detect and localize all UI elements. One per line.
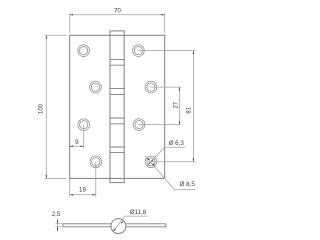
svg-text:27: 27 — [174, 101, 180, 108]
arrow 2,5 down — [57, 221, 59, 224]
side view knuckle circle — [111, 219, 126, 234]
screw hole L2 — [90, 81, 102, 93]
arrow 11,8 NE — [121, 221, 124, 224]
svg-text:Ø 6,3: Ø 6,3 — [169, 140, 185, 147]
dimension 70 line — [70, 14, 165, 16]
dimension 81 line — [192, 51, 194, 162]
arrow 18 right — [93, 194, 96, 196]
dimension 27 extension lines from holes R2 R3 — [139, 87, 181, 125]
arrow 70 right — [161, 14, 164, 16]
screw hole R3 — [133, 119, 145, 131]
dimension 18 line — [70, 194, 96, 196]
arrow 81 bottom — [193, 159, 195, 162]
knuckle joint band 4 — [110, 147, 124, 153]
leader diameter 6,3 — [147, 147, 186, 166]
screw hole R4 — [145, 156, 157, 168]
svg-text:70: 70 — [114, 8, 121, 15]
dimension 2,5 line — [57, 219, 59, 232]
arrow 100 bottom — [46, 175, 48, 178]
dimension 100 line — [45, 35, 47, 178]
arrow 81 top — [193, 51, 195, 54]
arrow 8,5 SE — [152, 163, 155, 166]
arrow 27 top — [179, 87, 181, 90]
screw hole L4 — [90, 156, 102, 168]
hinge leaf outline — [70, 35, 165, 178]
screw hole R2 — [145, 81, 157, 93]
dimension 81 extension lines from holes R1 R4 — [138, 51, 195, 162]
dimension 9 line — [70, 145, 84, 147]
hinge barrel — [110, 31, 124, 183]
arrow 9 right — [80, 146, 83, 148]
svg-text:2,5: 2,5 — [52, 211, 61, 218]
dimension 18 extension lines — [70, 162, 96, 198]
arrow 8,5 NW — [147, 158, 150, 161]
arrow 27 bottom — [179, 121, 181, 124]
knuckle joint band 3 — [110, 118, 124, 124]
svg-text:18: 18 — [79, 187, 86, 194]
screw hole R1 — [133, 45, 145, 57]
dimension 2,5 extension ticks — [55, 224, 63, 227]
knuckle joint band 2 — [110, 89, 124, 95]
dimension 9 extension line from hole L3 — [83, 125, 85, 149]
knuckle joint band 1 — [110, 59, 124, 65]
svg-text:9: 9 — [75, 139, 79, 146]
arrow 6,3 NE — [151, 159, 154, 162]
arrow 6,3 SW — [148, 162, 151, 165]
arrow 70 left — [70, 14, 73, 16]
arrow 100 top — [46, 35, 48, 38]
dimension 70 extension lines — [70, 13, 165, 33]
arrow 2,5 up — [57, 227, 59, 230]
svg-text:81: 81 — [187, 106, 193, 113]
svg-text:100: 100 — [39, 103, 45, 114]
dimension 100 extension lines — [45, 35, 67, 178]
screw hole L3 — [78, 119, 90, 131]
arrow 18 left — [70, 194, 73, 196]
leader diameter 11,8 — [113, 216, 147, 231]
svg-text:Ø 8,5: Ø 8,5 — [180, 181, 196, 188]
svg-text:Ø11,8: Ø11,8 — [130, 209, 147, 216]
side view leaf bar — [63, 224, 166, 227]
arrow 11,8 SW — [113, 229, 116, 232]
arrow 9 left — [70, 146, 73, 148]
leader diameter 8,5 — [145, 156, 195, 190]
screw hole L1 — [78, 45, 90, 57]
dimension 27 line — [179, 87, 181, 125]
